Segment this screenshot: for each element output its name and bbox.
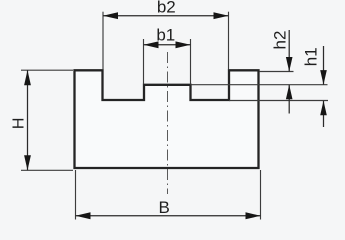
groove-bottom extension line (for h1) <box>229 100 328 102</box>
dimension b1 extension right <box>190 39 192 84</box>
h2 arrow down <box>286 57 293 72</box>
b1 arrow right <box>176 41 191 48</box>
h2 arrow up <box>286 85 293 100</box>
h1 arrow down <box>320 70 327 85</box>
svg-text:H: H <box>11 118 28 130</box>
dimension B line <box>76 215 261 217</box>
dimension h1 line upper <box>323 46 325 85</box>
dimension h2 line lower <box>288 85 290 114</box>
svg-text:b1: b1 <box>156 26 175 45</box>
B arrow left <box>76 212 91 219</box>
B arrow right <box>246 212 261 219</box>
svg-text:B: B <box>159 198 170 217</box>
dimension b2 extension right <box>228 12 230 70</box>
H arrow down <box>24 155 31 170</box>
dimension b2 extension left <box>102 12 104 70</box>
svg-text:h2: h2 <box>270 31 289 50</box>
dimension H extension top <box>21 69 73 71</box>
b2 arrow right <box>214 12 229 19</box>
dimension b1 extension left <box>143 39 145 84</box>
dimension B extension right <box>260 170 262 220</box>
dimension H extension bottom <box>21 169 73 171</box>
centerline <box>167 52 169 194</box>
profile outline <box>75 70 259 168</box>
dimension b2 line <box>103 15 229 17</box>
svg-text:h1: h1 <box>301 47 320 66</box>
b1 arrow left <box>144 41 159 48</box>
dimension B extension left <box>75 170 77 220</box>
b2 arrow left <box>103 12 118 19</box>
tab-top extension line (for h2) <box>260 71 294 73</box>
dimension h2 line upper <box>288 30 290 72</box>
dimension H line <box>27 70 29 170</box>
plateau-top extension line (for h2/h1) <box>191 84 328 86</box>
H arrow up <box>24 70 31 85</box>
h1 arrow up <box>320 101 327 116</box>
dimension h1 line lower <box>323 101 325 127</box>
svg-text:b2: b2 <box>157 0 176 16</box>
dimension b1 line <box>144 44 191 46</box>
